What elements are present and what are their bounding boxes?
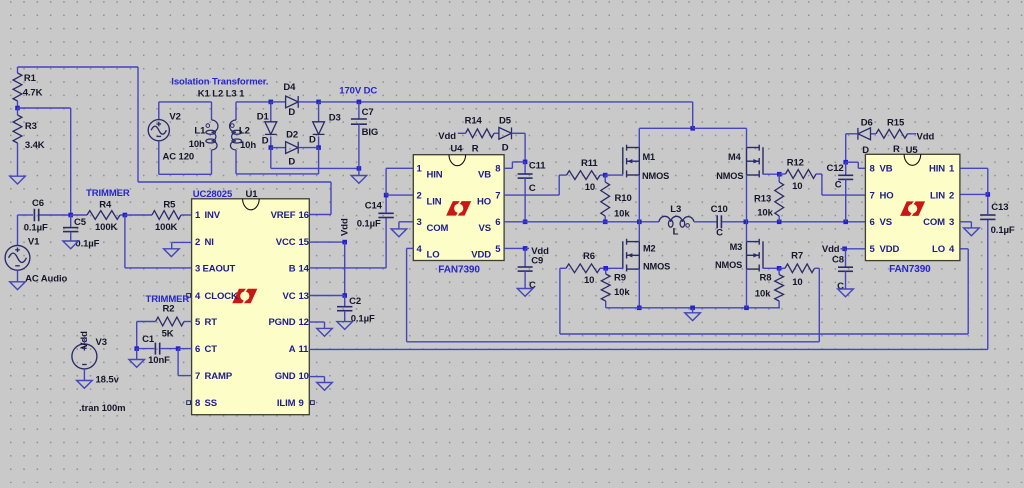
svg-text:M3: M3	[730, 242, 743, 252]
wire	[18, 107, 71, 109]
svg-text:R: R	[472, 144, 479, 155]
svg-text:FAN7390: FAN7390	[889, 264, 931, 275]
capacitor C14	[357, 200, 394, 229]
wire	[298, 101, 318, 103]
wire	[124, 215, 126, 268]
svg-text:1: 1	[949, 164, 955, 175]
svg-text:R14: R14	[465, 115, 483, 126]
svg-text:RT: RT	[205, 317, 218, 328]
svg-text:ILIM: ILIM	[277, 398, 296, 409]
resistor R9	[601, 268, 630, 308]
svg-text:8: 8	[195, 398, 200, 409]
svg-text:Isolation Transformer.: Isolation Transformer.	[171, 76, 268, 87]
svg-text:Vdd: Vdd	[438, 131, 456, 142]
junction M2 source / rail	[637, 306, 642, 311]
capacitor C9	[518, 256, 544, 291]
svg-text:L2: L2	[239, 125, 250, 136]
op-amp U5 FAN7390 body	[865, 154, 960, 260]
svg-text:GND: GND	[275, 371, 296, 382]
wire	[846, 133, 858, 135]
svg-text:TRIMMER: TRIMMER	[86, 188, 130, 199]
svg-text:C2: C2	[349, 296, 361, 307]
svg-text:HO: HO	[477, 196, 491, 207]
svg-text:VCC: VCC	[276, 237, 296, 248]
wire B out	[309, 267, 386, 269]
svg-text:C10: C10	[711, 204, 728, 215]
svg-text:UC28025: UC28025	[193, 189, 233, 200]
diode D1	[265, 122, 277, 135]
svg-text:D1: D1	[257, 112, 270, 123]
unconnected pin 4	[187, 294, 191, 298]
resistor R14	[463, 115, 499, 154]
svg-text:LIN: LIN	[427, 196, 442, 207]
svg-text:D: D	[502, 143, 509, 154]
net flag tick	[458, 132, 463, 134]
wire NI	[172, 241, 192, 243]
ground rectifier	[351, 176, 367, 184]
wire VB stub U5	[858, 167, 865, 169]
svg-text:7: 7	[870, 191, 875, 202]
wire	[818, 268, 820, 342]
ground GND pin	[317, 383, 333, 391]
svg-text:R13: R13	[754, 193, 771, 204]
svg-text:M2: M2	[643, 244, 656, 254]
svg-text:V1: V1	[28, 237, 40, 248]
junction HIN/LIN U5	[986, 192, 991, 197]
resistor R2	[137, 303, 192, 339]
wire M4 drain	[746, 128, 748, 147]
svg-text:R6: R6	[583, 251, 595, 262]
ground COM U5	[964, 228, 980, 236]
capacitor C8	[832, 255, 853, 292]
junction R7/R8/M3 gate	[777, 266, 782, 271]
op-amp U1 UC28025 body	[192, 199, 310, 415]
svg-text:R: R	[893, 144, 900, 155]
resistor R1	[13, 67, 43, 108]
voltage source V2	[148, 120, 169, 141]
svg-text:A: A	[289, 344, 296, 355]
svg-text:D5: D5	[499, 115, 512, 126]
svg-text:NI: NI	[205, 237, 214, 248]
wire	[70, 215, 72, 228]
diode D2	[286, 142, 299, 154]
svg-text:Vdd: Vdd	[822, 244, 840, 255]
wire	[344, 242, 346, 295]
wire	[511, 162, 513, 168]
voltage source V1	[5, 245, 30, 270]
wire	[694, 221, 717, 223]
svg-text:3: 3	[949, 217, 954, 228]
wire VDD U4	[504, 247, 525, 249]
svg-text:AC Audio: AC Audio	[25, 274, 67, 285]
wire	[524, 271, 526, 288]
junction bridge top-right	[316, 100, 321, 105]
wire	[211, 102, 213, 120]
wire to pin CT	[178, 348, 192, 350]
svg-text:0.1µF: 0.1µF	[357, 219, 381, 230]
svg-text:R12: R12	[787, 158, 804, 169]
wire	[692, 102, 694, 128]
wire	[236, 101, 271, 103]
svg-text:C: C	[529, 183, 536, 194]
wire to M1 gate	[605, 174, 623, 176]
svg-text:2: 2	[417, 191, 422, 202]
junction R11/R10/M1 gate	[603, 173, 608, 178]
svg-text:C: C	[716, 228, 723, 239]
wire	[693, 127, 747, 129]
wire	[845, 271, 847, 289]
svg-text:NMOS: NMOS	[643, 262, 670, 272]
svg-text:7: 7	[195, 371, 200, 382]
svg-text:LIN: LIN	[930, 191, 945, 202]
svg-text:R10: R10	[615, 193, 632, 204]
resistor R6	[560, 251, 606, 286]
ground COM U4	[391, 229, 407, 237]
wire	[136, 349, 138, 360]
svg-text:Vdd: Vdd	[339, 218, 350, 236]
wire	[40, 214, 71, 216]
svg-text:10k: 10k	[614, 209, 630, 220]
wire	[318, 136, 320, 147]
wire to M2 gate	[606, 267, 623, 269]
wire	[324, 322, 326, 328]
wire	[17, 215, 19, 245]
wire M3 source	[746, 269, 748, 308]
net flag tick	[841, 248, 845, 250]
resistor R4	[71, 200, 125, 233]
svg-text:NMOS: NMOS	[642, 171, 669, 181]
transistor M4	[747, 145, 764, 178]
svg-text:0.1µF: 0.1µF	[351, 314, 375, 325]
wire VC	[309, 295, 344, 297]
wire	[158, 141, 160, 174]
svg-text:NMOS: NMOS	[715, 260, 742, 270]
junction bridge top-left	[269, 100, 274, 105]
junction drain rail	[690, 126, 695, 131]
wire	[137, 348, 155, 350]
wire	[235, 102, 237, 120]
wire	[524, 133, 526, 162]
junction R2/C1	[134, 346, 139, 351]
svg-text:9: 9	[299, 398, 304, 409]
wire to pin RAMP	[178, 375, 192, 377]
resistor R11	[559, 158, 605, 193]
junction VB node U4	[523, 160, 528, 165]
svg-text:C9: C9	[531, 256, 543, 267]
wire VDD U5	[845, 248, 866, 250]
svg-text:LO: LO	[932, 244, 945, 255]
wire M1 source	[638, 175, 640, 222]
junction bridge bot-right	[316, 145, 321, 150]
wire	[987, 168, 989, 194]
wire	[211, 150, 213, 174]
svg-text:.tran 100m: .tran 100m	[79, 403, 126, 414]
wire	[177, 349, 179, 376]
wire	[845, 249, 847, 267]
wire	[987, 219, 989, 349]
wire	[158, 102, 160, 120]
svg-text:8: 8	[495, 164, 500, 175]
svg-text:10: 10	[585, 182, 595, 193]
svg-text:5K: 5K	[162, 329, 174, 340]
transistor M1	[623, 145, 640, 178]
wire	[524, 178, 526, 222]
svg-text:1: 1	[417, 164, 423, 175]
resistor R3	[13, 108, 45, 151]
svg-text:HIN: HIN	[427, 170, 443, 181]
wire	[324, 377, 326, 383]
junction Vdd flag	[342, 240, 347, 245]
wire to HIN U4	[386, 167, 413, 169]
svg-text:V3: V3	[96, 337, 107, 348]
wire to LO U5	[960, 248, 968, 250]
wire VCC	[309, 241, 344, 243]
wire	[171, 242, 173, 248]
svg-text:10h: 10h	[240, 140, 256, 151]
ground CT	[129, 360, 145, 368]
svg-text:R11: R11	[581, 158, 598, 169]
diode D4	[286, 96, 299, 108]
svg-text:L3: L3	[670, 204, 681, 215]
svg-text:8: 8	[870, 164, 875, 175]
wire	[524, 248, 526, 267]
capacitor C1	[142, 334, 170, 366]
svg-text:2: 2	[195, 237, 200, 248]
junction R6/R9/M2 gate	[603, 266, 608, 271]
svg-text:0.1µF: 0.1µF	[24, 223, 48, 234]
wire	[358, 124, 360, 168]
wire	[406, 248, 408, 341]
wire	[512, 132, 526, 134]
svg-text:K1 L2 L3 1: K1 L2 L3 1	[198, 89, 245, 100]
svg-text:D: D	[288, 107, 295, 118]
inductor L3	[659, 216, 694, 227]
junction C7 top	[357, 100, 362, 105]
wire	[385, 195, 387, 213]
resistor R7	[779, 251, 819, 288]
wire	[271, 167, 359, 169]
svg-text:Vdd: Vdd	[917, 131, 935, 142]
wire	[270, 148, 272, 169]
svg-text:13: 13	[299, 291, 309, 302]
svg-text:100K: 100K	[95, 222, 118, 233]
svg-text:D6: D6	[861, 118, 873, 129]
svg-text:C7: C7	[362, 107, 374, 118]
wire	[857, 162, 859, 168]
wire HO U4	[504, 194, 559, 196]
capacitor C13	[980, 202, 1015, 236]
svg-text:PGND: PGND	[268, 317, 295, 328]
wire M3 drain	[746, 222, 748, 242]
svg-text:C: C	[835, 179, 842, 190]
svg-text:C1: C1	[142, 334, 155, 345]
wire VS U4	[504, 221, 659, 223]
wire to HIN U5	[960, 167, 988, 169]
junction C5 node	[68, 213, 73, 218]
svg-text:R5: R5	[163, 200, 176, 211]
wire	[70, 108, 72, 215]
svg-text:4.7K: 4.7K	[23, 87, 43, 98]
wire GND10	[309, 376, 324, 378]
unconnected pin 8	[187, 401, 191, 405]
svg-text:5: 5	[195, 317, 201, 328]
wire to LIN U4	[386, 194, 413, 196]
transistor M2	[623, 239, 640, 272]
svg-text:HO: HO	[880, 191, 894, 202]
svg-text:U1: U1	[246, 189, 259, 200]
svg-text:6: 6	[870, 217, 875, 228]
wire	[344, 296, 346, 307]
junction C12/VS	[843, 220, 848, 225]
svg-text:D: D	[288, 156, 295, 167]
wire	[967, 249, 969, 334]
wire	[512, 161, 525, 163]
wire	[270, 102, 272, 122]
wire	[271, 101, 286, 103]
svg-text:11: 11	[299, 344, 310, 355]
wire	[821, 174, 823, 195]
wire HO U5	[822, 194, 866, 196]
svg-text:VC: VC	[283, 291, 296, 302]
svg-text:L: L	[673, 227, 679, 238]
ground C5	[63, 241, 79, 249]
wire	[987, 194, 989, 215]
wire	[136, 322, 138, 349]
ground V3	[77, 381, 93, 389]
resistor R5	[125, 200, 192, 233]
svg-text:6: 6	[195, 344, 200, 355]
wire	[846, 161, 859, 163]
net flag tick	[913, 133, 916, 135]
svg-text:R9: R9	[614, 273, 626, 284]
wire	[271, 147, 286, 149]
svg-text:C8: C8	[832, 255, 844, 266]
wire COM U5	[960, 221, 972, 223]
svg-text:B: B	[289, 263, 296, 274]
svg-text:VB: VB	[880, 164, 893, 175]
wire	[398, 222, 400, 229]
svg-text:C5: C5	[74, 217, 87, 228]
svg-text:VS: VS	[479, 223, 491, 234]
svg-text:AC 120: AC 120	[163, 152, 195, 163]
wire M4 gate	[763, 173, 779, 175]
wire M2 drain	[638, 222, 640, 242]
wire	[161, 348, 178, 350]
svg-text:12: 12	[299, 317, 309, 328]
wire	[18, 214, 34, 216]
svg-text:HIN: HIN	[929, 164, 945, 175]
wire	[344, 311, 346, 322]
wire M3 gate	[763, 267, 779, 269]
svg-text:0.1µF: 0.1µF	[991, 225, 1015, 236]
svg-text:VDD: VDD	[880, 244, 900, 255]
wire M4 source	[746, 175, 748, 222]
svg-text:VB: VB	[478, 170, 491, 181]
wire	[385, 218, 387, 268]
junction M4/M3 / VS	[744, 220, 749, 225]
svg-text:4: 4	[417, 244, 423, 255]
voltage source V3	[72, 344, 97, 369]
junction rail ground	[690, 306, 695, 311]
wire A out	[309, 348, 988, 350]
wire	[137, 67, 139, 182]
svg-text:M1: M1	[643, 152, 656, 162]
phase dot L3	[686, 224, 690, 228]
svg-text:R3: R3	[25, 121, 37, 132]
wire	[270, 136, 272, 147]
ground V1	[10, 282, 26, 290]
wire	[559, 268, 561, 334]
wire	[358, 168, 360, 175]
op-amp U4 FAN7390 body	[413, 155, 504, 261]
svg-text:3: 3	[195, 263, 200, 274]
svg-text:10h: 10h	[189, 139, 205, 150]
svg-text:RAMP: RAMP	[205, 371, 233, 382]
unconnected pin 9	[311, 401, 315, 405]
svg-text:R7: R7	[791, 251, 803, 262]
svg-text:10nF: 10nF	[148, 355, 170, 366]
svg-text:LO: LO	[427, 250, 440, 261]
wire	[17, 270, 19, 282]
svg-text:CT: CT	[205, 344, 218, 355]
wire	[17, 150, 19, 176]
svg-text:D2: D2	[286, 130, 298, 141]
resistor R12	[779, 158, 822, 192]
svg-text:10: 10	[584, 275, 594, 286]
svg-text:7: 7	[495, 191, 500, 202]
svg-text:10k: 10k	[614, 287, 630, 298]
junction Vdd U4	[523, 246, 528, 251]
wire	[845, 162, 847, 175]
ground power rail	[685, 313, 701, 321]
junction M3 source / rail	[744, 306, 749, 311]
wire	[70, 232, 72, 241]
wire	[318, 148, 320, 174]
resistor R13	[754, 174, 784, 222]
junction R12/R13/M4 gate	[777, 172, 782, 177]
svg-text:C11: C11	[529, 161, 546, 172]
junction Vdd U5	[842, 247, 847, 252]
svg-text:10k: 10k	[755, 289, 771, 300]
svg-text:C14: C14	[365, 200, 383, 211]
diode D3	[313, 122, 325, 135]
svg-text:10k: 10k	[757, 207, 773, 218]
svg-text:6: 6	[495, 217, 500, 228]
wire	[138, 181, 331, 183]
diode D6	[858, 128, 871, 140]
svg-text:100K: 100K	[155, 222, 178, 233]
net flag tick	[525, 247, 529, 249]
wire	[524, 162, 526, 174]
svg-text:VS: VS	[880, 217, 892, 228]
junction C11/VS	[523, 220, 528, 225]
capacitor C6	[24, 198, 48, 234]
junction VC/C2	[342, 293, 347, 298]
svg-text:BIG: BIG	[362, 127, 379, 138]
junction HIN/LIN U4	[384, 193, 389, 198]
wire 170V rail	[319, 101, 693, 103]
svg-text:10: 10	[792, 181, 802, 192]
svg-text:4: 4	[949, 244, 955, 255]
svg-text:0.1µF: 0.1µF	[75, 239, 99, 250]
net flag Vdd V3	[83, 337, 85, 344]
svg-text:FAN7390: FAN7390	[438, 264, 480, 275]
junction CT/RAMP	[176, 346, 181, 351]
svg-text:COM: COM	[923, 217, 945, 228]
junction C7 bottom / ground	[357, 166, 362, 171]
svg-text:10: 10	[792, 277, 802, 288]
resistor R8	[755, 268, 784, 308]
